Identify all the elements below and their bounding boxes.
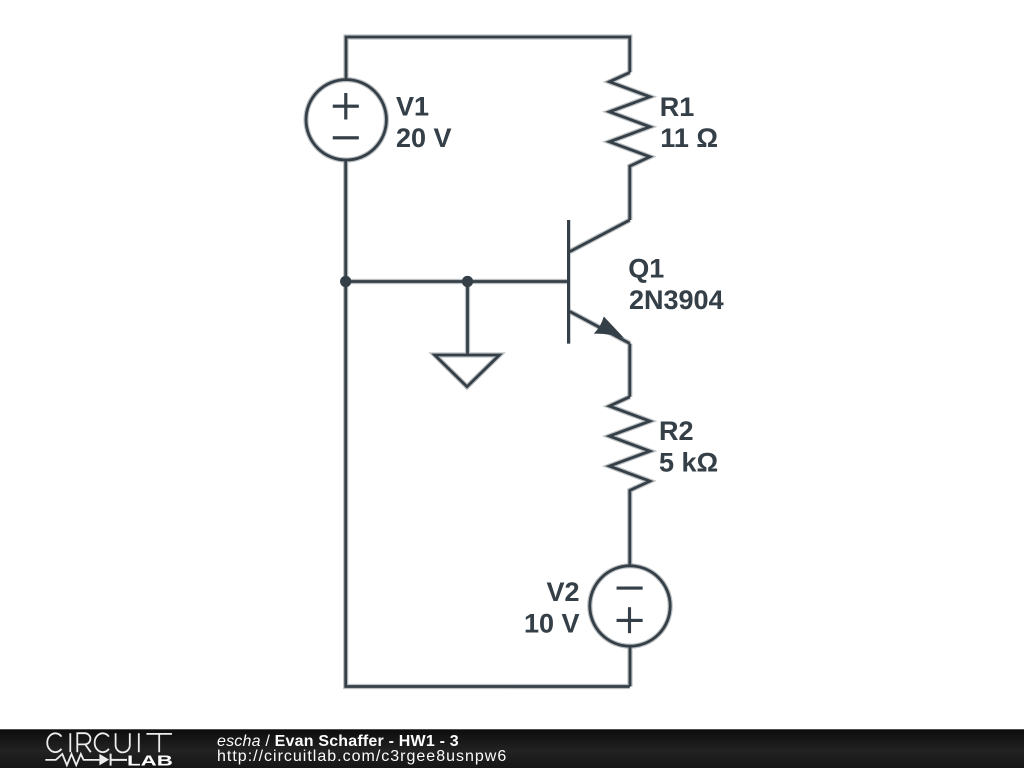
logo resistor squiggle	[45, 754, 99, 765]
attribution text	[217, 734, 459, 750]
schematic artwork: soft halo pass	[306, 37, 724, 687]
svg-text:LAB: LAB	[127, 752, 173, 768]
logo letter I	[69, 733, 71, 752]
logo letter I	[138, 733, 140, 752]
logo diode	[99, 754, 109, 766]
logo letter R	[77, 733, 91, 752]
logo letter C	[95, 733, 109, 752]
url text	[217, 749, 507, 765]
logo letter T	[146, 734, 172, 752]
logo letter U	[116, 733, 130, 752]
CircuitLab logo	[0, 729, 200, 768]
footer bar	[0, 729, 1024, 768]
logo letter C	[47, 733, 61, 752]
schematic artwork: main pass	[306, 37, 724, 687]
